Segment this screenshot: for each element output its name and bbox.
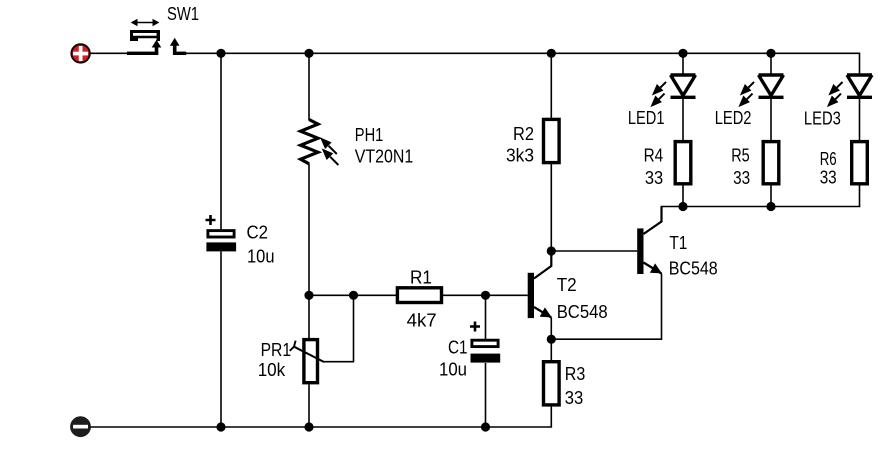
resistor R5 xyxy=(731,142,779,188)
svg-text:LED1: LED1 xyxy=(628,108,665,128)
wire C2 branch upper xyxy=(220,53,222,229)
wire PR1 bottom lead xyxy=(308,385,310,428)
svg-text:R3: R3 xyxy=(565,364,586,384)
svg-text:LED3: LED3 xyxy=(804,109,841,129)
wire top rail (switch to LED3 drop) xyxy=(185,53,860,75)
photoresistor PH1 xyxy=(301,120,414,167)
svg-text:R4: R4 xyxy=(644,146,664,166)
transistor T2 xyxy=(528,251,608,322)
wire C2 branch lower xyxy=(220,252,222,428)
wire T1 emitter down and across to R3 node xyxy=(551,274,661,340)
wire bottom rail xyxy=(91,426,553,428)
wire LED1 top lead xyxy=(682,53,684,74)
wire C1 top lead xyxy=(485,295,487,339)
node bottom rail / C2 xyxy=(216,422,225,431)
svg-text:33: 33 xyxy=(733,168,750,188)
node top rail / LED1 xyxy=(678,49,687,58)
svg-text:10k: 10k xyxy=(258,360,286,380)
resistor R1 xyxy=(397,268,441,331)
LED2 xyxy=(715,75,784,128)
resistor R3 xyxy=(544,362,586,408)
wire T2 collector node to T1 base xyxy=(551,250,637,252)
wire R6 bottom lead xyxy=(859,185,861,206)
svg-text:R5: R5 xyxy=(731,146,750,166)
svg-text:10u: 10u xyxy=(247,247,275,267)
svg-text:R6: R6 xyxy=(820,149,837,169)
svg-text:SW1: SW1 xyxy=(167,4,199,24)
node top rail / R2 xyxy=(547,49,556,58)
node top rail / LED2 xyxy=(766,49,775,58)
node bottom rail / C1 xyxy=(481,422,490,431)
wire R2 top lead xyxy=(550,53,552,118)
wire R4 bottom lead xyxy=(682,185,684,206)
svg-text:C2: C2 xyxy=(247,223,269,243)
resistor R6 xyxy=(820,142,868,188)
svg-text:10u: 10u xyxy=(439,360,467,380)
svg-text:PH1: PH1 xyxy=(355,125,384,145)
node T2 collector xyxy=(547,246,556,255)
wire PH1 branch upper xyxy=(308,53,310,120)
svg-text:33: 33 xyxy=(645,168,663,188)
wire R3 bottom lead xyxy=(550,407,552,428)
node C1 / base row xyxy=(481,291,490,300)
resistor R2 xyxy=(506,119,559,165)
svg-text:LED2: LED2 xyxy=(715,108,752,128)
wire LED3 bottom to R6 xyxy=(859,99,861,140)
svg-text:R2: R2 xyxy=(513,124,534,144)
wire C1 bottom lead xyxy=(485,363,487,427)
svg-text:3k3: 3k3 xyxy=(506,146,534,166)
transistor T1 xyxy=(637,207,718,279)
wire PH1 to R1 node xyxy=(308,164,310,340)
svg-text:T2: T2 xyxy=(557,275,577,295)
svg-text:R1: R1 xyxy=(410,268,432,288)
node wiper junction xyxy=(349,291,358,300)
node LED rail / R4 xyxy=(678,202,687,211)
wire R2 bottom lead xyxy=(550,164,552,251)
battery plus terminal xyxy=(71,44,89,62)
svg-text:BC548: BC548 xyxy=(669,259,718,279)
node PH1-R1 junction xyxy=(304,291,313,300)
svg-text:4k7: 4k7 xyxy=(407,311,437,331)
wire base row R1 left xyxy=(309,294,396,296)
wire T2 emitter to R3 node xyxy=(550,318,552,340)
node T2 emitter / R3 xyxy=(547,335,556,344)
LED1 xyxy=(628,75,696,128)
resistor R4 xyxy=(644,142,691,188)
wire LED1 bottom to R4 xyxy=(682,99,684,140)
node bottom rail / PR1 xyxy=(304,422,313,431)
node LED rail / R5 xyxy=(766,202,775,211)
svg-text:T1: T1 xyxy=(669,233,687,253)
switch SW1 xyxy=(127,4,199,55)
capacitor C2 xyxy=(206,215,275,267)
capacitor C1 xyxy=(439,322,500,380)
svg-text:VT20N1: VT20N1 xyxy=(355,147,414,167)
trimmer PR1 xyxy=(258,340,324,383)
wire R5 bottom lead xyxy=(770,185,772,206)
node top rail / PH1 xyxy=(304,49,313,58)
wire PR1 wiper to node xyxy=(324,295,354,361)
wire base row R1 right to T2 base xyxy=(443,294,528,296)
svg-text:33: 33 xyxy=(565,388,584,408)
node top rail / C2 xyxy=(216,49,225,58)
wire LED2 top lead xyxy=(770,53,772,74)
wire top rail left (plus terminal to switch) xyxy=(90,52,127,54)
wire LED cathode rail xyxy=(661,206,861,208)
LED3 xyxy=(804,75,872,129)
battery minus terminal xyxy=(71,417,91,437)
wire R3 top lead xyxy=(550,339,552,360)
svg-text:C1: C1 xyxy=(448,338,468,358)
svg-text:33: 33 xyxy=(820,168,837,188)
svg-text:BC548: BC548 xyxy=(557,302,608,322)
wire LED2 bottom to R5 xyxy=(770,99,772,140)
svg-text:PR1: PR1 xyxy=(261,340,292,360)
